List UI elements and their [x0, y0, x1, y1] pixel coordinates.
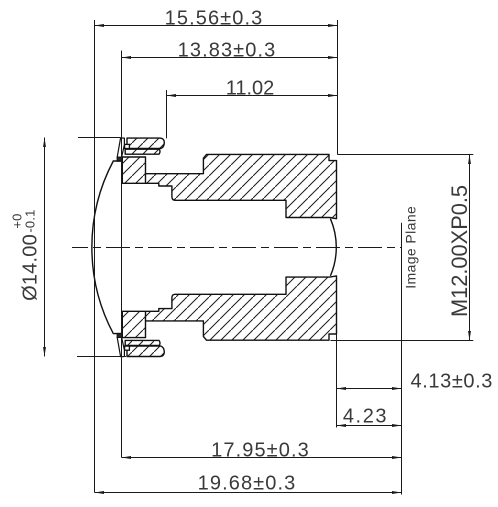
extension line XC 11.02 — [166, 90, 168, 138]
svg-text:11.02: 11.02 — [226, 78, 275, 100]
retainer cap lower (hatched) — [127, 346, 164, 356]
svg-text:4.13±0.3: 4.13±0.3 — [411, 371, 494, 393]
dimension 13.83 — [122, 57, 338, 59]
extension line XA front face — [94, 20, 96, 493]
dimension 17.95 — [122, 457, 402, 459]
crimp rim lower (hatched) — [117, 337, 124, 356]
dimension 11.02 — [167, 95, 338, 97]
barrel upper groove inner edge — [145, 174, 147, 184]
M12 extension bottom — [331, 340, 474, 342]
centerline (optical axis) — [72, 247, 402, 249]
dia14 extension bottom — [77, 356, 126, 358]
barrel lower cross-section (hatched) — [122, 276, 336, 340]
crimp foot upper — [117, 157, 122, 161]
dimension 4.23 — [337, 425, 402, 427]
crimp foot lower — [117, 333, 122, 337]
retainer ring left key upper — [125, 144, 130, 148]
barrel upper cross-section (hatched) — [122, 154, 336, 218]
extension line XE rear face bottom — [336, 334, 338, 428]
dimension dia 14.00 vertical — [44, 138, 46, 357]
retainer ring lower bar upper — [125, 149, 160, 154]
svg-text:Image Plane: Image Plane — [403, 206, 419, 289]
dia14 extension top — [78, 137, 121, 139]
dimension 4.13 — [337, 388, 402, 390]
extension line XB front vertex datum — [121, 51, 123, 458]
barrel lower groove inner edge — [145, 311, 147, 321]
svg-text:15.56±0.3: 15.56±0.3 — [165, 8, 264, 30]
retainer ring lower bar lower — [125, 340, 160, 345]
crimp rim upper (hatched) — [117, 138, 124, 157]
extension line XD rear face top — [337, 20, 339, 154]
svg-text:19.68±0.3: 19.68±0.3 — [198, 473, 297, 495]
svg-text:-0.1: -0.1 — [23, 209, 38, 232]
svg-text:4.23: 4.23 — [343, 406, 388, 428]
retainer ring left key lower — [125, 346, 130, 350]
svg-text:17.95±0.3: 17.95±0.3 — [211, 440, 310, 462]
dimension M12 thread vertical — [469, 155, 471, 341]
svg-text:13.83±0.3: 13.83±0.3 — [178, 40, 277, 62]
dimension 15.56 — [95, 25, 338, 27]
svg-text:M12.00XP0.5: M12.00XP0.5 — [447, 185, 472, 317]
image plane line XF — [401, 223, 403, 495]
svg-text:Ø14.00: Ø14.00 — [20, 234, 42, 301]
front lens element (glass, unhatched) — [92, 161, 122, 334]
M12 extension top — [337, 154, 473, 156]
rear lens element surface — [330, 219, 336, 276]
dimension 19.68 — [95, 492, 402, 494]
retainer cap upper (hatched) — [127, 138, 164, 148]
